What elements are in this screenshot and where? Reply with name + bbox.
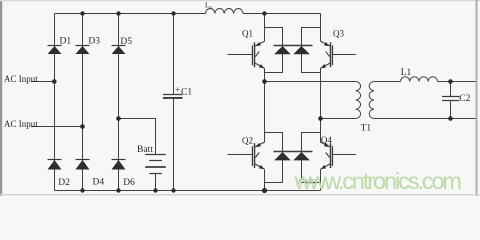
node: battery branch junction — [116, 116, 121, 121]
wire: C2 bottom lead — [450, 100, 452, 118]
node: bottom rail / battery — [153, 188, 157, 192]
capacitor C2 plates — [442, 97, 460, 101]
svg-text:C2: C2 — [459, 94, 470, 104]
diode D3 triangle — [76, 46, 90, 54]
node: bottom rail / D4 column — [80, 188, 84, 192]
wire: output top lead — [438, 81, 477, 83]
node: bottom rail / D6 column — [116, 188, 120, 192]
svg-text:AC Input: AC Input — [4, 119, 38, 129]
freewheel diode of Q2 triangle — [274, 152, 291, 160]
wire: Q1 collector vertical — [264, 14, 266, 42]
freewheel diodes bottom pair shared cathode bar — [274, 151, 313, 153]
transistor Q2 — [228, 142, 265, 169]
diode D1 cathode bar — [48, 45, 62, 47]
diode D5 cathode bar — [112, 45, 126, 47]
diode D3 cathode bar — [76, 45, 90, 47]
svg-text:AC Input: AC Input — [4, 74, 38, 84]
svg-text:Batt: Batt — [137, 145, 153, 155]
wire: top DC rail left segment — [55, 13, 206, 15]
inductor L1 (output filter) — [401, 77, 438, 82]
svg-text:C1: C1 — [181, 88, 192, 98]
wire: Q3 emitter vertical — [320, 68, 322, 118]
wire: AC input line 1 — [31, 81, 55, 83]
svg-text:T1: T1 — [361, 124, 372, 134]
wire: Q4 freewheel diode branch loop — [302, 133, 321, 152]
wire: secondary top lead — [374, 81, 401, 83]
svg-text:Q2: Q2 — [242, 135, 253, 145]
transistor Q3 — [321, 41, 356, 68]
transistor Q1 — [228, 41, 265, 68]
freewheel diode of Q4 triangle — [293, 152, 310, 160]
wire: bridge column 1 vertical (D1/D2 leg) — [54, 14, 56, 191]
svg-text:Q3: Q3 — [333, 28, 344, 38]
wire: Q1 emitter vertical — [264, 68, 266, 81]
wire: bridge column 3 vertical (D5/D6 leg) — [118, 14, 120, 191]
wire: transformer primary top lead — [265, 81, 356, 83]
wire: secondary/output bottom lead — [374, 118, 476, 120]
svg-text:Ls: Ls — [205, 1, 212, 11]
svg-text:D2: D2 — [58, 178, 70, 188]
inductor Ls (boost inductor) — [206, 8, 243, 13]
diode D4 triangle — [76, 160, 90, 170]
freewheel diode of Q1 triangle — [274, 46, 291, 54]
node: Q3/Q4 midpoint — [318, 116, 323, 121]
wire: AC input line 2 — [31, 126, 83, 128]
diode D2 triangle — [48, 160, 62, 170]
node: bottom rail / Q2 emitter — [262, 188, 267, 193]
svg-text:www.cntronics.com: www.cntronics.com — [294, 168, 463, 194]
wire: bridge column 2 vertical (D3/D4 leg) — [82, 14, 84, 191]
svg-text:Q4: Q4 — [321, 135, 332, 145]
diode D2 cathode bar — [48, 159, 62, 161]
wire: C1 bottom lead — [173, 98, 175, 191]
svg-text:D5: D5 — [120, 37, 132, 47]
node: Q1/Q2 midpoint — [262, 79, 267, 84]
wire: Q3 collector vertical — [320, 14, 322, 42]
capacitor C1 plates — [163, 95, 183, 98]
diode D6 triangle — [112, 160, 126, 170]
svg-text:+: + — [175, 86, 180, 96]
wire: Q2 collector vertical — [264, 82, 266, 143]
wire: transformer primary bottom lead — [321, 118, 356, 120]
wire: C1 top lead — [173, 14, 175, 95]
freewheel diodes top pair shared cathode bar — [274, 45, 313, 47]
wire: battery branch from column 3 — [119, 119, 156, 155]
transformer T1 secondary winding — [369, 82, 374, 119]
wire: Q4 emitter vertical — [320, 169, 322, 190]
diode D5 triangle — [112, 46, 126, 54]
node: top rail / D5 column — [116, 11, 120, 15]
wire: Q2 emitter vertical — [264, 169, 266, 190]
svg-text:D3: D3 — [88, 37, 100, 47]
wire: Q1 freewheel diode branch loop — [265, 28, 283, 46]
transformer T1 primary winding — [356, 82, 361, 119]
node: AC input 1 junction — [52, 79, 57, 84]
node: output top / C2 — [448, 79, 453, 84]
diode D1 triangle — [48, 46, 62, 54]
node: AC input 2 junction — [80, 124, 85, 129]
freewheel diode of Q3 triangle — [293, 46, 310, 54]
svg-text:L1: L1 — [401, 68, 412, 78]
wire: Q3 freewheel diode branch loop — [302, 28, 321, 46]
svg-text:Q1: Q1 — [242, 28, 253, 38]
wire: Q4 collector vertical — [320, 119, 322, 143]
diode D6 cathode bar — [112, 159, 126, 161]
wire: bottom DC rail — [55, 190, 321, 192]
node: top rail / C1 — [171, 11, 175, 15]
wire: C2 top lead — [450, 82, 452, 97]
wire: top DC rail right segment — [243, 13, 321, 15]
node: top rail / D3 column — [80, 11, 84, 15]
wire: battery bottom lead — [155, 174, 157, 191]
svg-text:D6: D6 — [123, 178, 135, 188]
svg-text:D1: D1 — [60, 37, 72, 47]
wire: Q2 freewheel diode branch loop — [265, 133, 283, 152]
node: bottom rail / C1 — [171, 188, 175, 192]
svg-text:D4: D4 — [93, 178, 105, 188]
battery Batt plates — [145, 155, 166, 174]
diode D4 cathode bar — [76, 159, 90, 161]
node: top rail / Q1 collector — [262, 11, 266, 15]
node: output bottom / C2 — [448, 116, 453, 121]
transistor Q4 — [321, 142, 356, 169]
